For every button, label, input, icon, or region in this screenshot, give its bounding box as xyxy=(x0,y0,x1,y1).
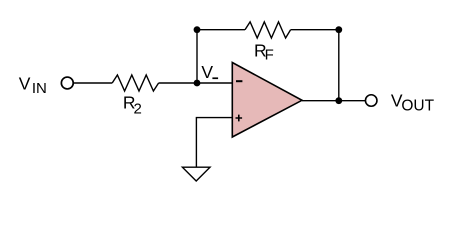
resistor R2 xyxy=(112,75,158,91)
wire R2 to op-amp inverting input xyxy=(159,82,233,84)
junction node V- xyxy=(194,80,201,87)
op-amp inverting input marker - xyxy=(236,80,242,82)
svg-text:VOUT: VOUT xyxy=(391,90,435,114)
wire V- node up to feedback xyxy=(196,30,198,83)
input terminal circle xyxy=(61,77,73,89)
svg-text:V: V xyxy=(201,62,213,82)
svg-text:R2: R2 xyxy=(123,93,142,118)
output terminal circle xyxy=(365,95,377,107)
wire op-amp output xyxy=(302,100,365,102)
junction top-right xyxy=(335,26,342,33)
op-amp non-inverting input marker + xyxy=(236,115,243,122)
ground xyxy=(182,167,210,181)
op-amp U1 xyxy=(232,63,302,138)
junction output node xyxy=(335,97,342,104)
resistor RF xyxy=(245,22,291,38)
svg-text:RF: RF xyxy=(254,41,274,64)
junction top-left xyxy=(194,26,201,33)
wire top-left to RF xyxy=(197,29,245,31)
wire input terminal to R2 xyxy=(74,82,112,84)
wire RF to top-right corner xyxy=(291,29,339,31)
wire top-right down to output node xyxy=(338,30,340,101)
wire op-amp non-inverting input xyxy=(196,118,232,167)
svg-text:VIN: VIN xyxy=(19,73,47,97)
